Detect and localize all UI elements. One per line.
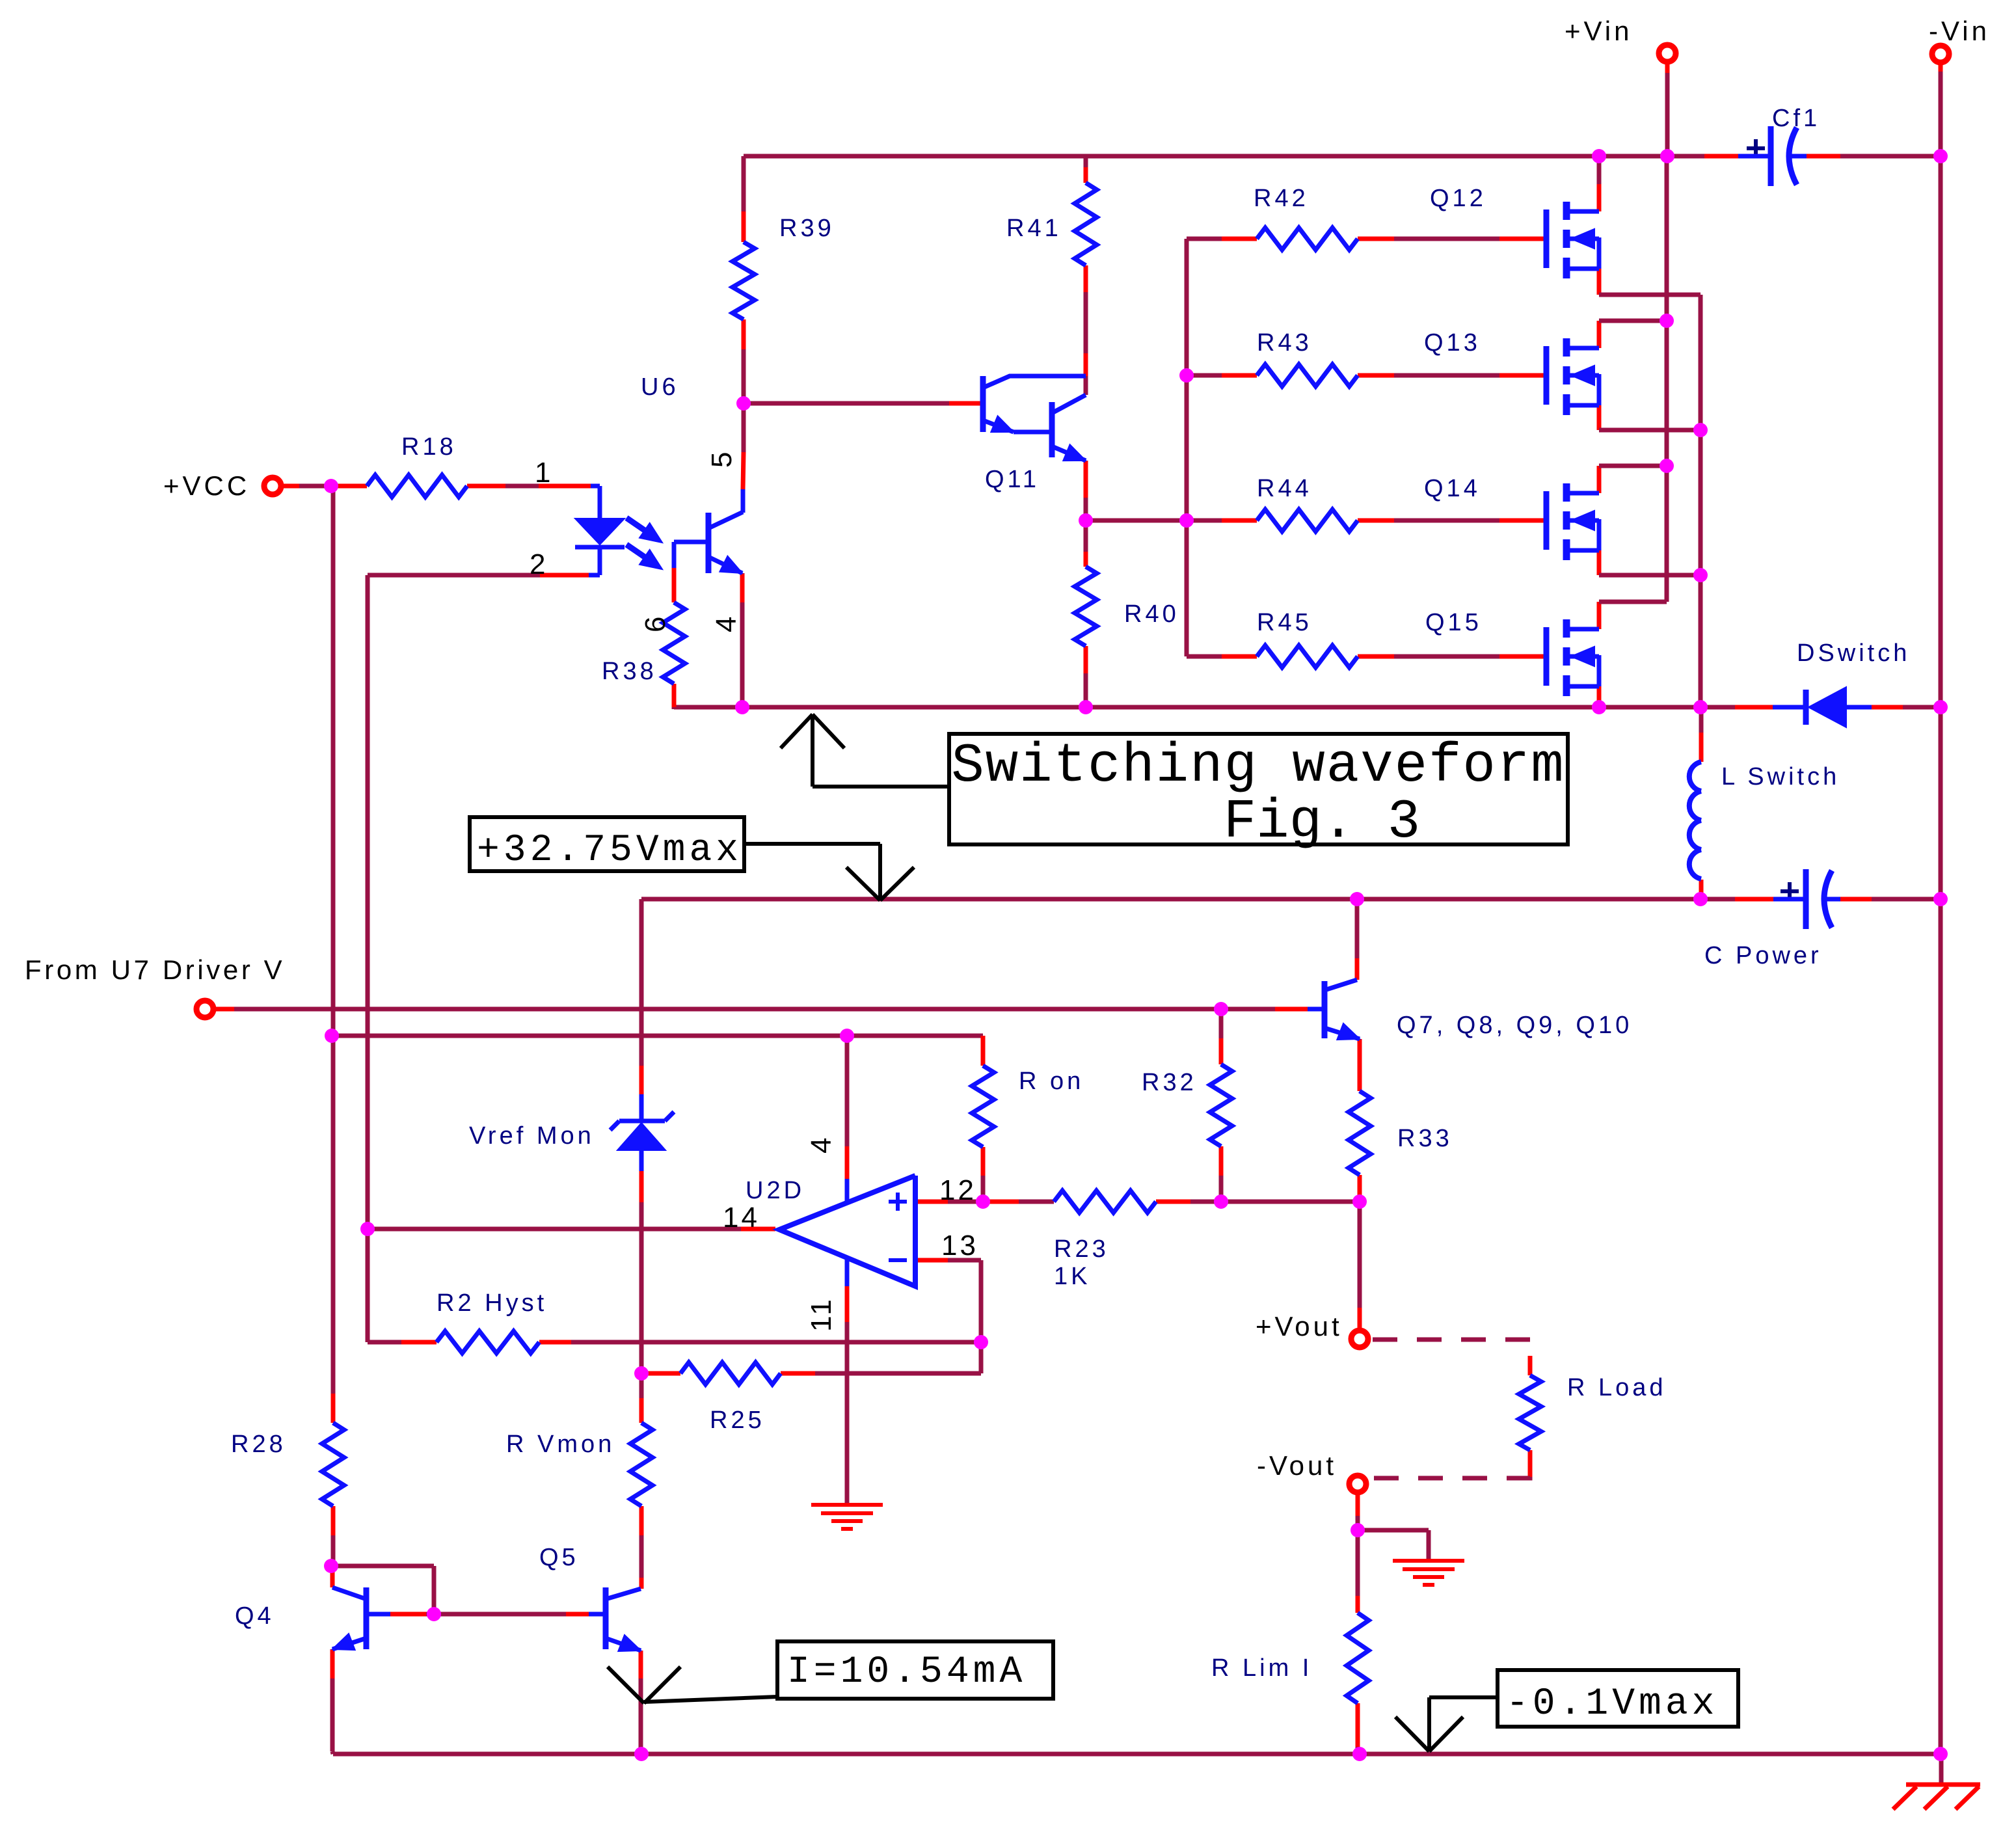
transistor Q11 second bar <box>1049 402 1055 457</box>
wire Q5 emitter down <box>639 1651 643 1679</box>
capacitor Cf1 right lead <box>1790 154 1807 159</box>
callout box I=10.54mA <box>777 1641 1053 1699</box>
transistor Q7 emitter <box>1324 1028 1360 1039</box>
wire Q15 drain jog <box>1597 602 1602 629</box>
ground op-amp pin 11 <box>811 1503 883 1507</box>
svg-text:Vref Mon: Vref Mon <box>469 1122 595 1150</box>
MOSFET Q12 <box>1544 209 1550 268</box>
svg-text:6: 6 <box>639 614 671 632</box>
resistor R Lim I <box>1347 1613 1369 1703</box>
wire -Vout to R Lim I <box>1356 1492 1360 1516</box>
wire -Vin right-edge vertical <box>1939 62 1943 73</box>
svg-text:Q14: Q14 <box>1424 475 1481 502</box>
capacitor C Power right lead <box>1825 897 1840 902</box>
wire R41 branch <box>1084 166 1088 183</box>
transistor Q4 base lead <box>366 1612 390 1617</box>
svg-text:R44: R44 <box>1257 475 1312 502</box>
terminal +Vin <box>1659 45 1676 62</box>
transistor Q11 collector2 <box>1052 395 1086 413</box>
svg-text:R Vmon: R Vmon <box>506 1431 615 1458</box>
wire Q12 source jog <box>1597 269 1602 295</box>
wire Vref Mon / R Vmon vertical <box>639 899 644 1066</box>
transistor Q11 first bar <box>980 376 986 432</box>
node bus right corner <box>1933 1747 1948 1761</box>
wire R44 gate row <box>1187 519 1222 523</box>
node gate rail R43 <box>1179 368 1194 383</box>
resistor R40 <box>1075 567 1097 646</box>
resistor R on <box>972 1066 994 1147</box>
wire U6 pin 2 net <box>540 573 589 578</box>
node gate rail R44 <box>1179 513 1194 528</box>
svg-text:R43: R43 <box>1257 329 1312 357</box>
resistor R28 <box>322 1423 344 1506</box>
MOSFET Q15 <box>1544 627 1550 686</box>
capacitor C Power plus sign <box>1781 889 1799 893</box>
diode DSwitch cathode bar <box>1803 690 1809 725</box>
wire Q11 emitter / R40 node <box>1084 461 1088 498</box>
node C Power to -Vin <box>1933 892 1948 906</box>
opto-LED U6 triangle <box>575 519 625 545</box>
svg-text:-Vin: -Vin <box>1929 16 1990 46</box>
transistor Q7 base lead <box>1308 1007 1324 1012</box>
svg-text:14: 14 <box>723 1202 760 1234</box>
node R Lim I bus <box>1352 1747 1367 1761</box>
transistor Q11 emitter2 <box>1052 446 1086 461</box>
zener Vref Mon lead bottom <box>639 1150 644 1171</box>
wire R32 branch <box>1219 1009 1224 1038</box>
wire source rail <box>1699 295 1703 707</box>
node Q5 emitter bus <box>634 1747 649 1761</box>
transistor Q7 collector <box>1324 980 1357 990</box>
svg-text:12: 12 <box>939 1174 976 1206</box>
resistor R18 <box>367 475 467 497</box>
zener Vref Mon lead top <box>639 1094 644 1121</box>
node pin4 tap <box>840 1029 854 1043</box>
callout arrow -0.1Vmax <box>1429 1695 1498 1699</box>
transistor Q7 bar <box>1322 981 1328 1038</box>
svg-text:5: 5 <box>706 449 738 468</box>
capacitor Cf1 curved plate <box>1789 128 1797 185</box>
svg-text:13: 13 <box>941 1230 978 1261</box>
node -Vin top <box>1933 149 1948 163</box>
capacitor Cf1 plus sign <box>1747 146 1765 150</box>
svg-text:+Vout: +Vout <box>1256 1311 1343 1342</box>
transistor Q5 collector <box>606 1589 641 1599</box>
wire Q4 base loop <box>331 1564 434 1569</box>
node Q14 drain <box>1660 459 1674 473</box>
resistor R Vmon <box>630 1423 652 1506</box>
svg-text:U6: U6 <box>641 373 679 401</box>
zener Vref Mon triangle <box>617 1123 665 1150</box>
callout arrow +32.75Vmax <box>744 842 880 846</box>
opto-LED U6 anode lead <box>591 484 600 489</box>
transistor Q5 base lead <box>589 1612 606 1617</box>
wire op-amp output pin 14 <box>368 1227 741 1232</box>
diode DSwitch right lead <box>1846 705 1872 710</box>
svg-text:R25: R25 <box>710 1407 765 1434</box>
node Q12 drain <box>1592 149 1606 163</box>
svg-text:Q4: Q4 <box>235 1602 275 1630</box>
zener Vref Mon bar <box>619 1119 665 1124</box>
wire bottom return bus <box>333 1752 1941 1757</box>
op-amp U2D plus <box>889 1200 907 1204</box>
wire +VCC vertical <box>331 487 336 1036</box>
wire Q14 source jog <box>1597 550 1602 575</box>
wire drain rail <box>1665 156 1669 602</box>
svg-text:DSwitch: DSwitch <box>1797 640 1910 667</box>
wire dashed R Load to -Vout <box>1369 1477 1530 1478</box>
svg-text:Q12: Q12 <box>1430 185 1486 212</box>
wire Q13 source jog <box>1597 405 1602 430</box>
diode DSwitch triangle <box>1808 687 1846 727</box>
terminal From U7 Driver V <box>196 1001 213 1018</box>
wire R39 branch <box>742 156 746 211</box>
opto-LED U6 cathode lead <box>598 547 602 575</box>
svg-text:R on: R on <box>1019 1068 1084 1095</box>
transistor Q5 bar <box>603 1587 609 1649</box>
wire R33 to +Vout <box>1358 1202 1362 1308</box>
wire gate drive rail <box>1185 239 1189 656</box>
opto-transistor U6 collector <box>708 512 743 528</box>
svg-text:+Vin: +Vin <box>1565 16 1632 46</box>
node Q13 drain <box>1660 314 1674 328</box>
node R on/pin12 <box>976 1194 990 1209</box>
svg-text:R32: R32 <box>1142 1069 1197 1096</box>
resistor R23 <box>1054 1191 1156 1213</box>
wire R42 gate row <box>1187 237 1222 241</box>
node +Vin <box>1660 149 1674 163</box>
terminal -Vin <box>1932 46 1949 62</box>
wire U6 pin 5 net <box>742 403 746 452</box>
op-amp U2D body <box>779 1176 915 1286</box>
callout box Switching waveform <box>949 734 1568 844</box>
svg-text:Cf1: Cf1 <box>1772 105 1820 132</box>
svg-text:R39: R39 <box>779 215 835 242</box>
terminal +VCC <box>264 478 281 494</box>
svg-text:L Switch: L Switch <box>1721 763 1840 790</box>
svg-text:R38: R38 <box>602 658 657 685</box>
resistor R Load <box>1519 1375 1541 1450</box>
svg-text:1: 1 <box>535 457 554 489</box>
opto-transistor U6 base lead <box>674 540 708 545</box>
node R2Hyst/pin13 <box>974 1335 988 1349</box>
wire R25 left stub <box>641 1371 680 1376</box>
wire Q7 collector to bus <box>1355 899 1360 958</box>
svg-text:R18: R18 <box>401 433 457 461</box>
wire +Vin terminal drop <box>1665 72 1670 156</box>
wire R45 gate row <box>1187 654 1222 659</box>
wire Q4 collector stub <box>330 1571 335 1587</box>
wire L Switch branch <box>1699 707 1704 733</box>
capacitor Cf1 left lead <box>1738 154 1771 159</box>
node bus to -Vin <box>1933 700 1948 714</box>
svg-text:R Lim I: R Lim I <box>1211 1654 1312 1682</box>
resistor R41 <box>1075 183 1097 265</box>
callout box +32.75Vmax <box>470 817 744 871</box>
node Q15 source <box>1592 700 1606 714</box>
wire U6 to Q11 base <box>744 401 949 406</box>
node Q11/R40 <box>1079 513 1093 528</box>
resistor R44 <box>1257 509 1358 532</box>
svg-text:11: 11 <box>805 1297 837 1332</box>
svg-text:R28: R28 <box>231 1431 286 1458</box>
capacitor Cf1 flat plate <box>1768 126 1774 186</box>
callout arrow to switching node <box>811 716 814 787</box>
transistor Q11 emitter1 <box>983 420 1014 432</box>
wire Q7 emitter to R33 <box>1358 1039 1362 1091</box>
wire U6 pin 4 net <box>740 573 745 602</box>
svg-text:C Power: C Power <box>1704 942 1822 969</box>
transistor Q4 collector <box>332 1587 366 1599</box>
svg-text:R42: R42 <box>1254 185 1309 212</box>
wire switching node bus <box>674 705 1701 710</box>
transistor Q5 emitter <box>606 1638 641 1651</box>
svg-text:R40: R40 <box>1124 600 1179 628</box>
wire +VCC rail to R on and op-amp pin 4 <box>333 1034 983 1038</box>
wire R on branch <box>981 1036 986 1066</box>
node R25/R Vmon <box>634 1366 649 1381</box>
node pin14/pin2 net <box>360 1222 375 1236</box>
resistor R39 <box>732 242 755 319</box>
wire R2 Hyst row <box>368 1340 401 1345</box>
node Q7 collector tap <box>1350 892 1364 906</box>
transistor Q11 collector <box>983 376 1086 388</box>
resistor R33 <box>1349 1091 1371 1175</box>
wire Q13 drain jog <box>1597 321 1602 348</box>
svg-text:Q7, Q8, Q9, Q10: Q7, Q8, Q9, Q10 <box>1397 1012 1632 1039</box>
svg-text:R2 Hyst: R2 Hyst <box>437 1289 547 1317</box>
resistor R45 <box>1257 645 1358 668</box>
wire Q14 drain jog <box>1597 466 1602 493</box>
wire R38 branch <box>672 542 677 568</box>
node switch node <box>1693 700 1708 714</box>
svg-text:-Vout: -Vout <box>1257 1450 1337 1481</box>
resistor R2 Hyst <box>437 1331 539 1353</box>
wire op-amp pin 11 to ground <box>845 1256 850 1286</box>
diode DSwitch left lead <box>1773 705 1806 710</box>
svg-text:Fig. 3: Fig. 3 <box>1224 792 1420 854</box>
capacitor C Power flat plate <box>1803 869 1809 929</box>
wire Q11 node to gate rail <box>1086 519 1187 523</box>
wire R18 to U6 pin 1 <box>467 484 505 489</box>
wire +32.75V output bus <box>641 897 1735 902</box>
svg-text:Q5: Q5 <box>539 1544 579 1571</box>
opto light arrow 1 <box>626 518 651 535</box>
svg-text:+32.75Vmax: +32.75Vmax <box>477 829 742 872</box>
wire op-amp pin 13 to R25 <box>915 1258 948 1263</box>
svg-text:2: 2 <box>530 548 548 580</box>
resistor R32 <box>1210 1064 1232 1146</box>
wire R Load bottom stub <box>1528 1450 1533 1477</box>
node +VCC tap <box>324 479 338 493</box>
svg-text:R41: R41 <box>1006 215 1062 242</box>
wire dashed +Vout to R Load <box>1373 1340 1530 1356</box>
wire R43 gate row <box>1187 373 1222 378</box>
wire op-amp pin 12 row <box>915 1200 948 1204</box>
wire -Vout ground branch <box>1358 1528 1429 1533</box>
node R32 bottom <box>1214 1194 1228 1209</box>
inductor L Switch <box>1689 762 1701 791</box>
svg-text:-0.1Vmax: -0.1Vmax <box>1506 1683 1718 1725</box>
callout box -0.1Vmax <box>1498 1670 1738 1727</box>
transistor Q4 bar <box>364 1587 370 1649</box>
svg-text:U2D: U2D <box>746 1177 805 1204</box>
ground -Vout <box>1393 1559 1464 1563</box>
capacitor C Power left lead <box>1773 897 1806 902</box>
svg-text:R Load: R Load <box>1567 1374 1667 1401</box>
MOSFET Q14 <box>1544 491 1550 550</box>
wire R Load top stub <box>1528 1356 1533 1375</box>
svg-text:R45: R45 <box>1257 609 1312 636</box>
svg-text:R33: R33 <box>1397 1125 1453 1152</box>
wire Q12 drain to +Vin bus <box>1597 156 1602 184</box>
MOSFET Q13 <box>1544 346 1550 405</box>
terminal +Vout <box>1351 1330 1368 1347</box>
wire Q15 source to bus <box>1597 686 1602 707</box>
resistor R42 <box>1257 228 1358 250</box>
svg-text:4: 4 <box>710 614 742 632</box>
op-amp U2D minus <box>889 1258 907 1262</box>
node Q13 source <box>1693 423 1708 437</box>
svg-text:+VCC: +VCC <box>163 470 250 501</box>
node Q4 base join <box>427 1607 441 1621</box>
svg-text:Switching waveform: Switching waveform <box>951 736 1565 798</box>
svg-text:4: 4 <box>805 1135 837 1153</box>
node Q14 source <box>1693 568 1708 582</box>
wire Q4 emitter down <box>330 1649 335 1679</box>
node -Vout gnd tap <box>1351 1523 1365 1537</box>
opto-transistor U6 base bar <box>706 513 712 573</box>
node Q7 base/R32 <box>1214 1002 1228 1016</box>
ground chassis bottom-right <box>1906 1783 1980 1787</box>
svg-text:R23: R23 <box>1054 1235 1109 1263</box>
node R28/Q4 <box>324 1559 338 1573</box>
opto-transistor U6 emitter <box>708 557 742 573</box>
svg-text:Q15: Q15 <box>1425 609 1482 636</box>
callout arrow I=10.54mA <box>644 1697 777 1702</box>
resistor R25 <box>680 1362 781 1384</box>
wire +VCC to R18 <box>281 484 299 489</box>
resistor R43 <box>1257 364 1358 386</box>
svg-text:From U7 Driver V: From U7 Driver V <box>25 954 285 985</box>
node U6 pin5/R39 <box>736 396 751 411</box>
wire Q4-Q5 base wire <box>390 1612 426 1617</box>
capacitor C Power curved plate <box>1824 870 1832 928</box>
resistor R38 <box>663 602 685 684</box>
svg-text:I=10.54mA: I=10.54mA <box>787 1651 1026 1693</box>
wire +Vin top bus <box>744 154 1704 159</box>
svg-text:Q13: Q13 <box>1424 329 1481 357</box>
node VCC rail tap <box>325 1029 339 1043</box>
node U6 pin4 bus <box>735 700 749 714</box>
wire From U7 Driver V to Q7 base <box>216 1007 234 1012</box>
wire op-amp pin 4 supply <box>845 1036 850 1146</box>
terminal -Vout <box>1349 1476 1366 1492</box>
node R40 bottom <box>1079 700 1093 714</box>
svg-text:Q11: Q11 <box>985 466 1040 493</box>
opto-LED U6 cathode bar <box>575 545 625 550</box>
transistor Q4 emitter <box>332 1638 366 1649</box>
node R33 bottom <box>1352 1194 1367 1209</box>
opto light arrow 2 <box>626 545 651 561</box>
svg-text:1K: 1K <box>1054 1263 1090 1290</box>
node L/C node <box>1693 892 1708 906</box>
